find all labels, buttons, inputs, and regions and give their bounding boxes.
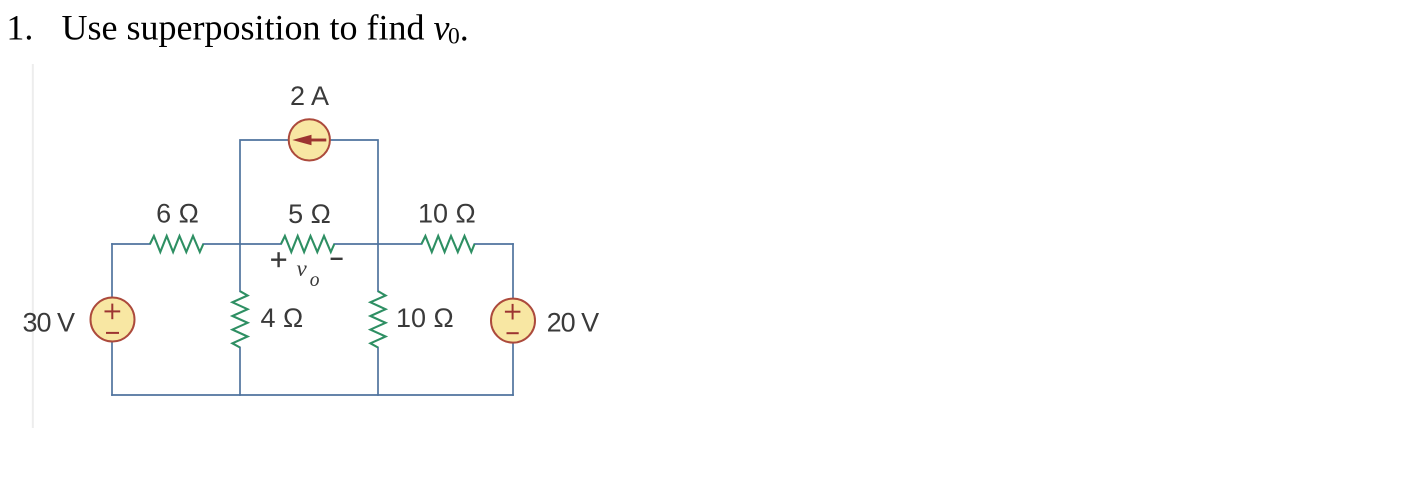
svg-text:Use superposition to find v0.: Use superposition to find v0. [62,8,469,50]
svg-text:5 Ω: 5 Ω [288,199,331,229]
svg-text:2 A: 2 A [290,81,329,111]
svg-text:10 Ω: 10 Ω [418,199,476,229]
svg-text:o: o [310,270,320,291]
svg-text:6 Ω: 6 Ω [156,199,199,229]
svg-text:30 V: 30 V [22,307,75,337]
svg-text:v: v [297,256,308,281]
svg-text:10 Ω: 10 Ω [396,303,454,333]
svg-text:1.: 1. [6,8,33,48]
svg-text:20 V: 20 V [547,307,600,337]
svg-text:4 Ω: 4 Ω [261,303,304,333]
